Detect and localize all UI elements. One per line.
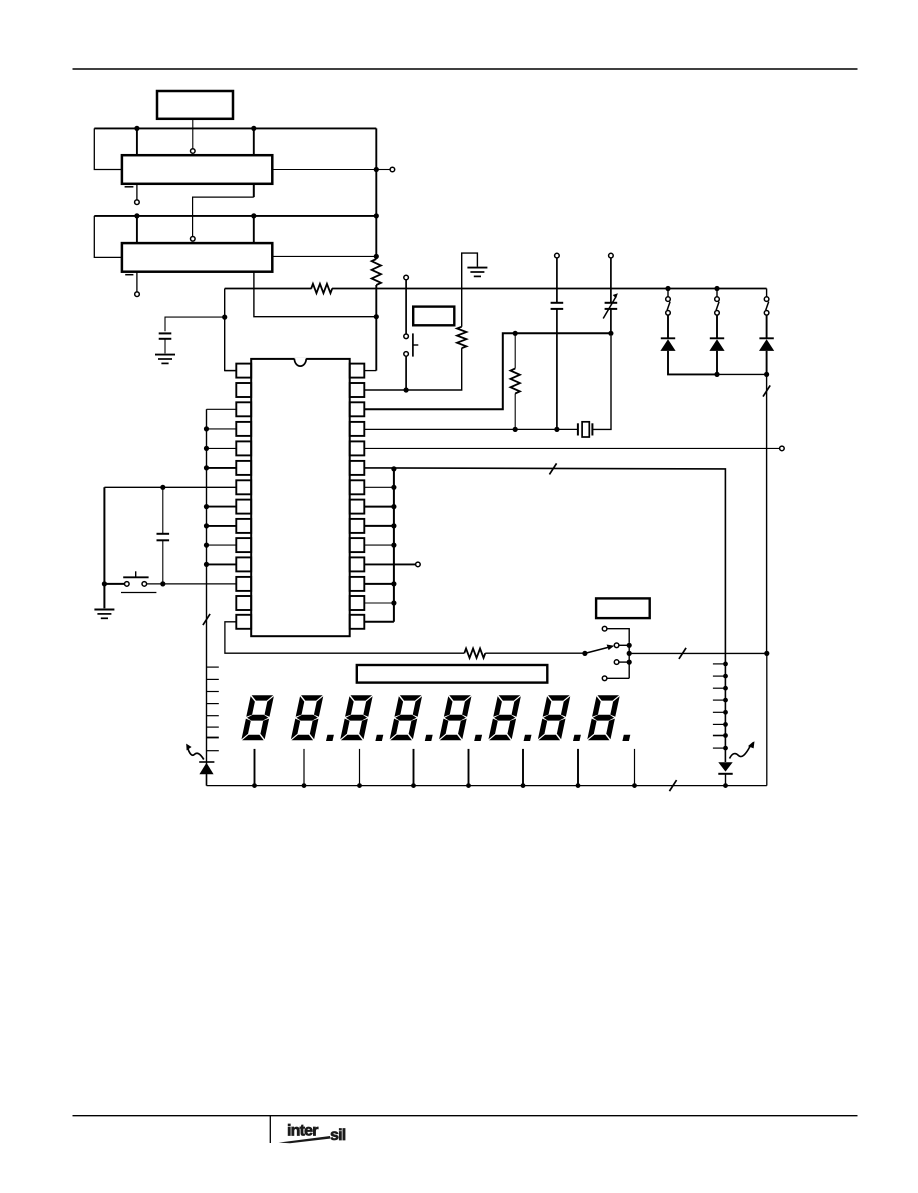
node left bus junction pin4	[204, 426, 209, 431]
bus slash S2 common line	[679, 648, 686, 659]
node S2 junction a	[627, 643, 632, 648]
display digit 1 (7-segment 8)	[241, 695, 274, 740]
wire C2 vertical upper	[556, 258, 558, 302]
box RESET label	[413, 307, 454, 326]
capacitor C1	[159, 332, 172, 334]
wire SW5 to diode D3	[766, 315, 768, 338]
U1 notch	[294, 358, 306, 366]
resistor R5	[464, 649, 485, 658]
display digit 3 decimal point	[375, 735, 383, 741]
node pin5 terminal	[780, 446, 785, 451]
node SW2 pole contact	[191, 237, 196, 242]
node range line junction	[374, 314, 379, 319]
switch SW3 top contact	[666, 297, 671, 302]
wire pin8 right stub	[364, 506, 394, 508]
resistor R4	[457, 327, 466, 348]
wire right trunk lower	[766, 653, 768, 785]
wire S2 contact1 arm	[607, 629, 629, 643]
display digit 7 decimal point	[573, 735, 581, 741]
wire diode bus	[717, 373, 767, 375]
svg-text:inter: inter	[287, 1122, 318, 1139]
display digit 6 (7-segment 8)	[488, 695, 521, 740]
node left bus junction pin8	[204, 504, 209, 509]
wire digit 7 cathode stub	[577, 749, 579, 786]
node pin11 terminal	[416, 562, 421, 567]
rotary switch S2 contact 2	[614, 643, 619, 648]
display digit 5 (7-segment 8)	[439, 695, 472, 740]
node crystal left junction b	[554, 427, 559, 432]
trimmer capacitor C3	[605, 302, 618, 304]
node pin2 junction	[404, 387, 409, 392]
node rail1 junction b	[251, 126, 256, 131]
wire rail1 left bracket	[94, 128, 122, 169]
bus slash left bus	[203, 614, 210, 625]
node S2 junction b	[627, 651, 632, 656]
switch SW5 blade	[766, 302, 769, 311]
wire C3 vertical lower	[610, 309, 612, 333]
switch SW5 top contact	[764, 297, 769, 302]
wire SW1 to SW2 pole	[193, 197, 254, 236]
capacitor C2	[551, 302, 564, 304]
wire D1 anode	[668, 351, 717, 375]
wire left bus to pin4	[207, 428, 237, 430]
node osc cap C2 terminal	[555, 253, 560, 258]
pushbutton PB2 left contact	[125, 582, 130, 587]
wire pin3 line	[364, 333, 611, 409]
wire digit 2 cathode stub	[303, 749, 305, 786]
wire top rail 1	[94, 127, 376, 129]
wire R2 upper stub	[514, 333, 516, 368]
wire SW2 output	[272, 255, 376, 257]
wire rail2 to SW2 left	[136, 216, 138, 243]
node diode bus junction a	[714, 372, 719, 377]
display digit 6 decimal point	[524, 735, 532, 741]
node rail junction col2	[714, 286, 719, 291]
diode D1	[661, 337, 675, 339]
pushbutton PB2 right contact	[142, 582, 147, 587]
wire pin7 right stub	[364, 486, 394, 488]
node inner bus junction pin13	[391, 600, 396, 605]
wire left bus vertical	[206, 409, 208, 785]
box RANGE label	[596, 598, 650, 618]
wire R4 up	[462, 253, 478, 327]
switch SW2 pin tick	[125, 274, 133, 276]
wire hold button left stub	[104, 583, 124, 585]
wire left bus to pin11	[207, 563, 237, 565]
node digit 8 cathode junction	[632, 783, 637, 788]
wire right trunk upper	[766, 374, 768, 653]
rotary switch S2 contact 1	[602, 626, 607, 631]
node trimmer C3 terminal	[609, 253, 614, 258]
switch SW4 top contact	[715, 297, 720, 302]
node C4 top junction	[160, 485, 165, 490]
wire SW1 output	[272, 169, 376, 171]
wire S2 contact3 stub	[619, 661, 629, 663]
bus slash pin6 line	[549, 463, 556, 474]
node rail2 junction b	[251, 213, 256, 218]
switch SW4 blade	[716, 302, 719, 311]
wire pin2 line	[364, 348, 461, 390]
LED D5 (right indicator)	[718, 762, 732, 771]
wire digit 6 cathode stub	[522, 749, 524, 786]
wire pin10 right stub	[364, 544, 394, 546]
wire to decoupling cap C1	[165, 317, 225, 331]
wire S2 contact2 stub	[619, 644, 629, 646]
footer divider	[269, 1116, 271, 1143]
wire pin1 left entry	[225, 370, 237, 372]
wire pin6 line	[364, 468, 725, 762]
node inner bus junction pin9	[391, 523, 396, 528]
node diode bus junction b	[764, 372, 769, 377]
node digit 6 cathode junction	[521, 783, 526, 788]
display digit 8 decimal point	[622, 735, 630, 741]
node digit 4 cathode junction	[411, 783, 416, 788]
pushbutton PB1 bottom contact	[404, 352, 409, 357]
display digit 4 decimal point	[425, 735, 433, 741]
display digit 3 (7-segment 8)	[340, 695, 373, 740]
LED D4 (left indicator)	[199, 761, 214, 763]
resistor R3 on main rail	[311, 284, 332, 293]
wire pin13 right stub	[364, 602, 394, 604]
wire pin3 left to bus	[207, 408, 237, 410]
pushbutton PB2 base line	[121, 592, 156, 594]
wire digit 4 cathode stub	[413, 749, 415, 786]
node left bus junction pin11	[204, 562, 209, 567]
wire digit 1 cathode stub	[254, 749, 256, 786]
node C4 bottom junction	[160, 581, 165, 586]
node digit 7 cathode junction	[576, 783, 581, 788]
intersil logo	[279, 1122, 346, 1143]
capacitor C4	[162, 487, 164, 533]
wire digit 5 cathode stub	[468, 749, 470, 786]
wire under-IC line right	[485, 652, 585, 654]
resistor R1	[372, 259, 381, 285]
pushbutton PB1 top contact	[404, 334, 409, 339]
wire pin14 left under-IC line	[225, 622, 464, 653]
diode D3	[759, 337, 773, 339]
page header rule	[73, 68, 858, 70]
wire C3 vertical upper	[610, 258, 612, 302]
display digit 8 (7-segment 8)	[587, 695, 620, 740]
wire pin9 right stub	[364, 525, 394, 527]
pushbutton PB1 actuator	[412, 333, 414, 356]
wire SW1 bottom stub	[136, 184, 138, 200]
wire rail2 to SW2 right	[253, 216, 255, 243]
wire S1 stem	[192, 119, 194, 149]
wire left bus to pin6	[207, 467, 237, 469]
node SW2 output junction	[374, 254, 379, 259]
wire SW1 bottom right stub	[253, 184, 255, 197]
node digit 2 cathode junction	[302, 783, 307, 788]
node decoupling junction	[222, 315, 227, 320]
ground symbol G3	[94, 609, 114, 611]
bus slash right trunk	[763, 385, 770, 396]
wire SW3 to diode D1	[667, 315, 669, 338]
node left bus junction pin6	[204, 465, 209, 470]
U1 right pin boxes pins 15-28	[350, 364, 365, 378]
wire PB2 to pin12	[147, 583, 237, 585]
wire pin4 line to crystal	[364, 428, 578, 430]
node SW1 output junction	[374, 167, 379, 172]
rotary switch S2 wiper arm	[585, 647, 610, 653]
node left bus junction pin10	[204, 543, 209, 548]
switch SW4 upper contact	[716, 289, 718, 297]
wire D3 anode	[766, 351, 768, 375]
wire left bus to pin5	[207, 447, 237, 449]
wire main rail left segment	[225, 288, 312, 290]
ground symbol G1	[155, 354, 175, 356]
wire pin7 left line	[104, 486, 236, 488]
wire SW2 to range line	[254, 272, 376, 317]
node SW1 bottom terminal	[135, 200, 140, 205]
wire rail2 left bracket	[94, 216, 122, 258]
switch SW1 (DPDT slide switch body)	[122, 155, 272, 184]
wire left bus to pin10	[207, 544, 237, 546]
wire R2 lower stub	[514, 394, 516, 430]
wire C2 vertical lower	[556, 309, 558, 430]
wire pin12 right stub	[364, 583, 394, 585]
wire digit 3 cathode stub	[359, 749, 361, 786]
switch SW3 bottom contact	[666, 311, 671, 316]
node S2 junction c	[627, 660, 632, 665]
switch SW4 bottom contact	[715, 311, 720, 316]
wire crystal right	[592, 336, 611, 430]
wire reset vertical	[405, 280, 407, 334]
node right trunk junction	[764, 651, 769, 656]
display digit 5 decimal point	[474, 735, 482, 741]
wire SW4 to diode D2	[716, 315, 718, 338]
rotary switch S2 contact 3	[614, 660, 619, 665]
display digit 2 (7-segment 8)	[291, 695, 324, 740]
node left bus junction pin5	[204, 446, 209, 451]
node digit 3 cathode junction	[357, 783, 362, 788]
wire main rail right segment	[332, 288, 767, 290]
wire S2 contact4 arm	[607, 677, 629, 679]
wire trunk right vertical lower	[375, 285, 377, 371]
switch SW5 upper contact	[766, 289, 768, 297]
wire pin5 line	[364, 447, 779, 449]
crystal Y1	[577, 423, 579, 435]
box S1 (oscillator select box)	[157, 91, 233, 119]
node digit 5 cathode junction	[466, 783, 471, 788]
node left bus junction pin9	[204, 523, 209, 528]
display digit 2 decimal point	[326, 735, 334, 741]
wire SW1 output stub	[379, 169, 391, 171]
node S1 pole contact	[191, 149, 196, 154]
node rail2 junction c	[374, 213, 379, 218]
rotary switch S2 contact 4	[602, 676, 607, 681]
node rail junction col1	[665, 286, 670, 291]
wire top rail 2	[94, 215, 376, 217]
node SW1 output terminal	[390, 167, 395, 172]
node inner bus junction pin10	[391, 543, 396, 548]
ground symbol G2	[467, 267, 487, 269]
bus slash bottom line	[669, 780, 676, 791]
wire S2 common vertical	[628, 645, 630, 678]
switch SW1 pin tick	[125, 186, 134, 188]
diode D2	[710, 337, 724, 339]
node SW2 bottom terminal	[135, 292, 140, 297]
wire digit 8 cathode stub	[634, 749, 636, 786]
wire pin14 right stub	[364, 621, 394, 623]
node right LED junction	[723, 783, 728, 788]
node reset top terminal	[404, 275, 409, 280]
switch SW3 upper contact	[667, 289, 669, 297]
switch SW5 bottom contact	[764, 311, 769, 316]
wire S2 common to right trunk	[629, 652, 767, 654]
node crystal left junction a	[513, 427, 518, 432]
right bus segment ticks	[713, 663, 726, 665]
U1 left pin boxes pins 1-14	[236, 364, 251, 378]
wire left hold vertical	[103, 487, 105, 608]
resistor R2	[511, 369, 520, 394]
left bus segment ticks	[207, 666, 219, 668]
wire rail1 to switch SW1 left	[136, 128, 138, 155]
node inner bus junction pin7	[391, 485, 396, 490]
wire C1 to ground	[164, 339, 166, 354]
switch SW2 (DPDT slide switch body)	[122, 243, 272, 272]
node rail1 junction a	[134, 126, 139, 131]
node S2 wiper origin	[582, 651, 587, 656]
op-amp U1 (ICM7226 counter IC body)	[251, 359, 350, 636]
wire trunk right vertical upper	[375, 128, 377, 259]
node hold button left junction	[102, 581, 107, 586]
display digit 7 (7-segment 8)	[538, 695, 571, 740]
page footer rule	[73, 1115, 858, 1117]
wire left bus to pin9	[207, 525, 237, 527]
node inner bus junction pin12	[391, 581, 396, 586]
wire PB1 to pin2 line	[405, 356, 407, 390]
wire pin11 right line	[364, 563, 415, 565]
wire rail1 to switch SW1 right	[253, 128, 255, 155]
node rail2 junction a	[134, 213, 139, 218]
node R2 top junction	[513, 331, 518, 336]
wire pin1 right entry	[364, 370, 376, 372]
wire left bus to pin8	[207, 506, 237, 508]
wire rail down to pin1 left	[225, 289, 237, 371]
node inner bus junction pin8	[391, 504, 396, 509]
wire right inner bus	[393, 469, 395, 622]
display digit 4 (7-segment 8)	[389, 695, 422, 740]
node inner bus junction pin6	[391, 466, 396, 471]
switch SW3 blade	[667, 302, 670, 311]
node digit 1 cathode junction	[252, 783, 257, 788]
wire D2 anode	[716, 351, 718, 375]
wire display common bottom	[207, 785, 767, 787]
box DISPLAY label	[357, 665, 548, 683]
node osc input junction	[608, 331, 613, 336]
LED D5 light arrow	[730, 746, 751, 759]
wire SW2 bottom stub	[136, 272, 138, 292]
svg-text:sil: sil	[330, 1127, 346, 1144]
pushbutton PB2 bar	[123, 576, 148, 578]
LED D4 light arrow	[187, 747, 204, 760]
